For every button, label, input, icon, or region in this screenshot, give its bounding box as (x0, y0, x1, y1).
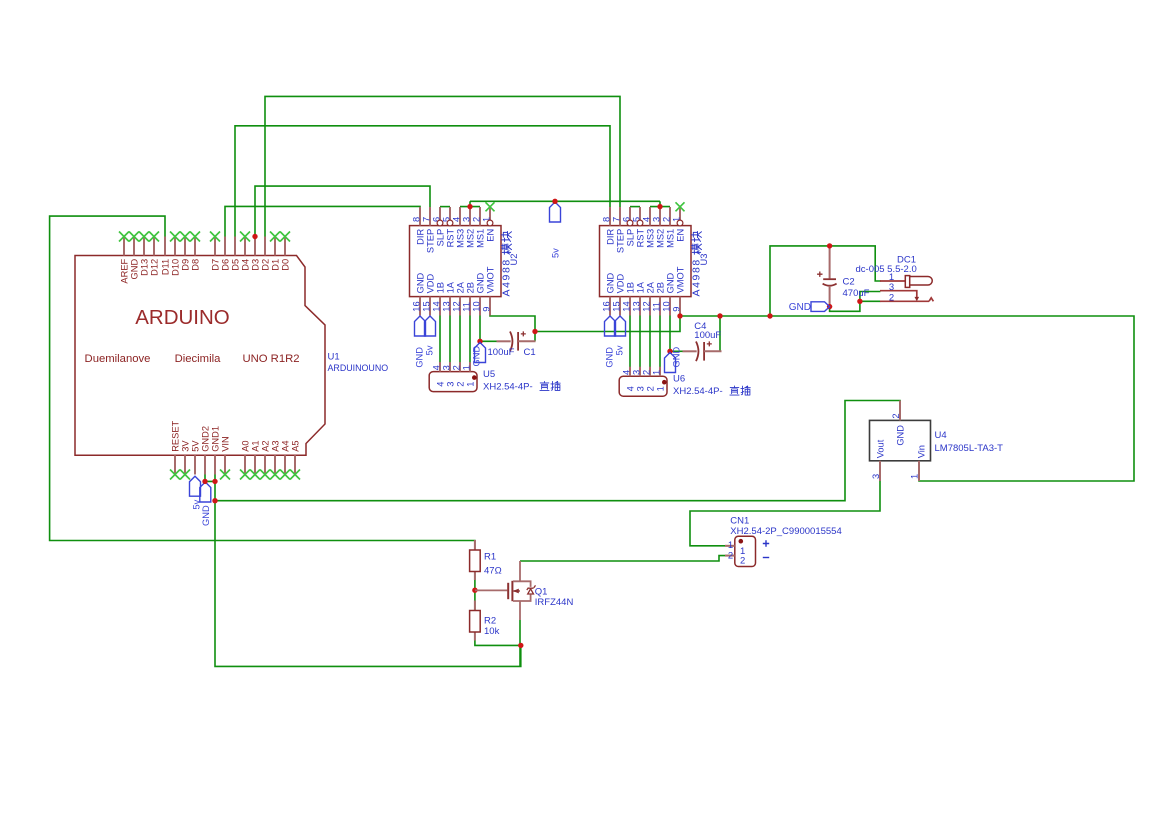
pin 3 of U5 (441, 362, 455, 387)
no-connect X 3V (180, 470, 190, 480)
pin D13 of U1 (139, 237, 149, 276)
svg-text:3: 3 (889, 282, 894, 293)
junction C4 gnd (667, 349, 672, 354)
svg-text:EN: EN (485, 229, 495, 242)
svg-text:3V: 3V (180, 440, 190, 452)
pin 2 MS1 of U3 (661, 207, 675, 248)
pin GND of U1 (129, 237, 139, 280)
no-connect X EN U3 (676, 202, 685, 211)
svg-text:GND: GND (475, 272, 485, 293)
wire GND2 link (205, 475, 215, 482)
pin 13 1A of U2 (441, 281, 455, 315)
text A4988 module name U2 (500, 232, 512, 297)
svg-text:470uF: 470uF (843, 288, 870, 299)
pin 3 of U6 (631, 367, 645, 392)
wire U2 SLP-RST tie (440, 206, 450, 208)
svg-text:15: 15 (421, 301, 431, 311)
pin GND1 of U1 (210, 426, 220, 475)
value R1 (484, 551, 502, 576)
wire Q1 drain to CN1 pin2 (520, 556, 735, 561)
svg-text:D11: D11 (160, 259, 170, 275)
svg-text:100uF: 100uF (694, 330, 721, 341)
svg-text:2: 2 (456, 382, 466, 387)
wire U3 2A to U6 (649, 315, 651, 367)
svg-text:3: 3 (651, 217, 661, 222)
svg-text:C1: C1 (524, 347, 536, 358)
pin 1 EN of U3 (671, 207, 685, 242)
svg-text:GND: GND (665, 272, 675, 293)
junction source R2 (518, 643, 523, 648)
wire VMOT link U2-U3 (535, 315, 680, 332)
wire U4 Vout to CN1 pin1 (690, 461, 880, 546)
svg-text:R1: R1 (484, 551, 496, 562)
pin 9 VMOT of U3 (671, 266, 685, 315)
svg-text:2: 2 (471, 217, 481, 222)
svg-text:ARDUINOUNO: ARDUINOUNO (328, 363, 389, 373)
wire U3 1B to U6 (629, 315, 631, 367)
pin GND2 of U1 (200, 426, 210, 475)
svg-text:2B: 2B (655, 282, 665, 293)
pin 4 MS3 of U3 (641, 207, 655, 248)
capacitor C4 100uF (683, 341, 722, 361)
svg-text:2: 2 (889, 293, 894, 304)
wire U3 1A to U6 (639, 315, 641, 367)
arduino U1 (75, 256, 325, 456)
svg-text:1: 1 (651, 370, 661, 375)
no-connect X VIN (220, 470, 230, 480)
svg-text:2: 2 (728, 550, 733, 561)
junction 12V tee (767, 313, 772, 318)
pin 12 2A of U3 (641, 281, 655, 315)
svg-text:2: 2 (740, 556, 745, 567)
pin D10 of U1 (170, 237, 180, 276)
svg-text:AREF: AREF (119, 258, 129, 283)
pin A3 of U1 (270, 440, 280, 474)
pin 5V of U1 (190, 440, 200, 475)
no-connect X D13 (139, 232, 149, 242)
wire U3 GND pin10 down (669, 315, 671, 351)
junction D3 pin (252, 234, 257, 239)
svg-text:11: 11 (651, 302, 661, 312)
junction 5v flag (552, 199, 557, 204)
no-connect X EN U2 (486, 202, 495, 211)
wire U2 2B to U5 (469, 315, 471, 363)
pin 15 VDD of U3 (611, 273, 625, 315)
pin-1 marker U5 (472, 375, 477, 380)
svg-text:5V: 5V (190, 440, 200, 452)
svg-text:VDD: VDD (425, 273, 435, 293)
svg-text:D7: D7 (210, 259, 220, 271)
pin 2 GND of U4 (891, 401, 906, 446)
svg-text:C2: C2 (843, 277, 855, 288)
pin 1 of U5 (461, 362, 475, 387)
svg-text:MS3: MS3 (455, 229, 465, 248)
svg-text:U3: U3 (699, 254, 709, 266)
svg-text:RST: RST (445, 228, 455, 247)
svg-text:GND: GND (604, 347, 614, 368)
svg-text:3: 3 (631, 370, 641, 375)
svg-text:D13: D13 (139, 259, 149, 276)
pin 8 DIR of U2 (411, 207, 425, 245)
pin 3 MS2 of U3 (651, 207, 665, 248)
svg-text:MS3: MS3 (645, 229, 655, 248)
svg-text:A5: A5 (290, 440, 300, 451)
capacitor C1 100uF (497, 331, 536, 351)
pin 8 DIR of U3 (601, 207, 615, 245)
power flag 5v at U1 (190, 476, 201, 496)
svg-text:STEP: STEP (425, 229, 435, 253)
svg-text:8: 8 (411, 217, 421, 222)
pin A1 of U1 (250, 440, 260, 474)
pin D0 of U1 (280, 237, 290, 271)
wire C1 positive to U2 VMOT (490, 315, 535, 341)
svg-text:3: 3 (441, 365, 451, 370)
svg-text:7: 7 (611, 217, 621, 222)
svg-text:RST: RST (635, 228, 645, 247)
pin D5 of U1 (230, 237, 240, 271)
svg-text:13: 13 (631, 301, 641, 311)
svg-text:SLP: SLP (625, 229, 635, 247)
wire C4 positive up (719, 316, 721, 351)
ground flag GND at C1 (475, 343, 486, 363)
junction C2 top (827, 243, 832, 248)
svg-text:2A: 2A (455, 281, 465, 293)
svg-text:U6: U6 (673, 374, 685, 385)
svg-text:Vout: Vout (876, 439, 886, 458)
wire 12V to C2 and DC1 pin1 (770, 246, 881, 316)
pin 10 GND of U3 (661, 272, 675, 315)
pin 1 of CN1 (725, 540, 745, 557)
svg-text:U2: U2 (509, 254, 519, 266)
svg-text:GND2: GND2 (200, 426, 210, 452)
pin D12 of U1 (149, 237, 159, 276)
junction U3 VMOT (677, 313, 682, 318)
svg-text:2A: 2A (645, 281, 655, 293)
svg-text:A4: A4 (280, 440, 290, 451)
no-connect X GND (129, 232, 139, 242)
svg-text:13: 13 (441, 301, 451, 311)
pin 14 1B of U3 (621, 282, 635, 315)
pin 3 Vout of U4 (871, 439, 886, 481)
svg-text:1: 1 (461, 365, 471, 370)
power flag 5v under U3 (615, 316, 626, 336)
wire U2 MS1-MS3 tie (460, 206, 480, 208)
resistor R1 47&#937; (470, 540, 481, 580)
svg-text:D5: D5 (230, 259, 240, 271)
svg-text:D4: D4 (240, 259, 250, 271)
capacitor C2 470uF (817, 246, 837, 307)
svg-text:A3: A3 (270, 440, 280, 451)
connector CN1 XH2.54-2P (735, 536, 756, 566)
regulator U4 LM7805 (870, 420, 931, 460)
svg-text:GND: GND (896, 425, 906, 446)
svg-text:2: 2 (891, 413, 901, 418)
pin numbers DC1 (889, 272, 894, 304)
svg-text:3: 3 (461, 217, 471, 222)
svg-text:Duemilanove: Duemilanove (85, 353, 151, 365)
svg-text:16: 16 (411, 301, 421, 311)
svg-text:1A: 1A (445, 281, 455, 293)
no-connect X A2 (260, 470, 270, 480)
no-connect X RESET (170, 470, 180, 480)
pin D1 of U1 (270, 237, 280, 271)
pin 1 Vin of U4 (909, 445, 926, 481)
svg-text:XH2.54-4P-: XH2.54-4P- (483, 382, 533, 393)
svg-text:GND: GND (201, 505, 211, 526)
label U6 XH2.54-4P (673, 374, 750, 398)
svg-text:14: 14 (431, 301, 441, 311)
svg-text:Q1: Q1 (535, 587, 548, 598)
no-connect X D12 (149, 232, 159, 242)
svg-text:3: 3 (871, 474, 881, 479)
wire 5v drop U3 (659, 201, 661, 206)
svg-text:10k: 10k (484, 626, 500, 637)
wire net D3 to U2 STEP (255, 186, 430, 237)
svg-text:1: 1 (466, 382, 476, 387)
svg-text:7: 7 (421, 217, 431, 222)
pin A2 of U1 (260, 440, 270, 474)
svg-text:4: 4 (451, 217, 461, 222)
pin 7 STEP of U2 (421, 207, 435, 253)
pin 4 of U5 (431, 362, 445, 387)
text A4988 module name U3 (690, 232, 702, 297)
junction GND2 (202, 479, 207, 484)
power flag 5v under U2 (425, 316, 436, 336)
no-connect X D8 (190, 232, 200, 242)
A4988 module U3 (600, 226, 692, 297)
wire net D2 to U3 STEP (265, 96, 620, 237)
pin D6 of U1 (220, 237, 230, 271)
no-connect X D7 (210, 232, 220, 242)
connector U6 XH2.54-4P (619, 376, 667, 396)
wire R1 to R2 (474, 572, 476, 611)
pin D8 of U1 (190, 237, 200, 271)
pin 3V of U1 (180, 440, 190, 475)
no-connect X D0 (280, 232, 290, 242)
svg-text:9: 9 (671, 307, 681, 312)
svg-text:GND1: GND1 (210, 426, 220, 452)
wire U2 2A to U5 (459, 315, 461, 363)
label DC1 (856, 255, 917, 276)
ground flag GND under U3 (605, 316, 616, 336)
wire C4 negative lead (670, 350, 683, 352)
svg-text:DIR: DIR (605, 229, 615, 245)
resistor R2 10k (470, 601, 481, 641)
svg-text:D3: D3 (250, 259, 260, 271)
pin 6 SLP of U2 (431, 207, 445, 246)
junction C2 bottom (827, 304, 832, 309)
pin 2 of U6 (641, 367, 655, 392)
wire U2 GND pin10 down (479, 315, 481, 341)
svg-text:U5: U5 (483, 369, 495, 380)
pin 4 of U6 (621, 367, 635, 392)
svg-text:U1: U1 (328, 352, 340, 363)
svg-text:MS2: MS2 (465, 229, 475, 248)
value R2 (484, 616, 500, 637)
svg-text:8: 8 (601, 217, 611, 222)
junction DC1 gnd tee (857, 299, 862, 304)
junction R1 R2 gate (472, 588, 477, 593)
pin 3 MS2 of U2 (461, 207, 475, 248)
pin D9 of U1 (180, 237, 190, 271)
pin A5 of U1 (290, 440, 300, 474)
label U1 ARDUINOUNO (328, 352, 389, 374)
pin 5 RST of U3 (631, 207, 645, 247)
svg-text:15: 15 (611, 301, 621, 311)
svg-text:4: 4 (436, 382, 446, 387)
svg-text:5v: 5v (424, 345, 434, 355)
no-connect X A4 (280, 470, 290, 480)
svg-text:RESET: RESET (170, 420, 180, 451)
pin 1 of U6 (651, 367, 665, 392)
svg-text:GND: GND (414, 347, 424, 368)
wire net D11 to R1 (50, 216, 475, 551)
svg-text:LM7805L-TA3-T: LM7805L-TA3-T (935, 443, 1004, 454)
pin 2 of U5 (451, 362, 465, 387)
ground net label GND at C2 (789, 302, 830, 313)
svg-text:XH2.54-4P-: XH2.54-4P- (673, 386, 723, 397)
pin A4 of U1 (280, 440, 290, 474)
pin VIN of U1 (220, 436, 230, 474)
svg-text:dc-005 5.5-2.0: dc-005 5.5-2.0 (856, 264, 917, 275)
svg-text:4: 4 (626, 386, 636, 391)
wire DC1 pin2 tie (860, 300, 881, 302)
wire GND1 down and bottom rail (215, 475, 521, 667)
ground flag GND under U2 (415, 316, 426, 336)
svg-text:1B: 1B (625, 282, 635, 293)
svg-text:Vin: Vin (916, 445, 926, 458)
connector U5 XH2.54-4P (429, 372, 477, 392)
no-connect X D9 (180, 232, 190, 242)
svg-text:VMOT: VMOT (485, 266, 495, 293)
transistor Q1 IRFZ44N (475, 561, 536, 620)
svg-text:Diecimila: Diecimila (175, 353, 222, 365)
svg-text:10: 10 (471, 301, 481, 311)
no-connect X A1 (250, 470, 260, 480)
svg-text:D10: D10 (170, 259, 180, 276)
pin 1 EN of U2 (481, 207, 495, 242)
svg-text:D0: D0 (280, 259, 290, 271)
svg-text:GND: GND (472, 346, 482, 367)
power flag 5v mid (550, 202, 561, 222)
svg-text:1: 1 (656, 386, 666, 391)
pin A0 of U1 (240, 440, 250, 474)
pin D4 of U1 (240, 237, 250, 271)
svg-text:U4: U4 (935, 430, 947, 441)
svg-text:2: 2 (646, 386, 656, 391)
junction GND rail (212, 498, 217, 503)
junction GND1 (212, 479, 217, 484)
junction C1 gnd (477, 339, 482, 344)
svg-text:EN: EN (675, 229, 685, 242)
svg-text:D1: D1 (270, 259, 280, 271)
pin 12 2A of U2 (451, 281, 465, 315)
svg-text:VIN: VIN (220, 436, 230, 452)
svg-text:3: 3 (636, 386, 646, 391)
svg-text:STEP: STEP (615, 229, 625, 253)
pin 7 STEP of U3 (611, 207, 625, 253)
no-connect X AREF (119, 232, 129, 242)
svg-text:XH2.54-2P_C9900015554: XH2.54-2P_C9900015554 (730, 526, 841, 537)
wire U3 2B to U6 (659, 315, 661, 367)
svg-text:2: 2 (451, 365, 461, 370)
no-connect X A0 (240, 470, 250, 480)
svg-text:UNO R1R2: UNO R1R2 (242, 353, 299, 365)
pin 16 GND of U3 (601, 272, 615, 315)
svg-text:2B: 2B (465, 282, 475, 293)
pin 14 1B of U2 (431, 282, 445, 315)
polarity marks CN1 (763, 540, 769, 557)
svg-text:12: 12 (641, 301, 651, 311)
label Q1 IRFZ44N (535, 587, 574, 609)
label U5 XH2.54-4P (483, 369, 560, 393)
svg-text:2: 2 (641, 370, 651, 375)
svg-text:3: 3 (446, 382, 456, 387)
svg-text:GND: GND (672, 347, 682, 368)
ground flag GND at U1 (200, 482, 211, 502)
A4988 module U2 (410, 226, 502, 297)
svg-text:5v: 5v (550, 248, 560, 258)
svg-text:D6: D6 (220, 259, 230, 271)
svg-text:16: 16 (601, 301, 611, 311)
svg-text:1: 1 (909, 474, 919, 479)
svg-text:A1: A1 (250, 440, 260, 451)
pin D7 of U1 (210, 237, 220, 271)
svg-text:ARDUINO: ARDUINO (135, 306, 230, 329)
pin 2 of CN1 (725, 550, 745, 566)
svg-text:A0: A0 (240, 440, 250, 451)
svg-text:1B: 1B (435, 282, 445, 293)
svg-text:MS1: MS1 (475, 229, 485, 248)
wire U2 1B to U5 (439, 315, 441, 363)
no-connect X D4 (240, 232, 250, 242)
svg-text:4: 4 (641, 217, 651, 222)
svg-text:IRFZ44N: IRFZ44N (535, 597, 574, 608)
pin 15 VDD of U2 (421, 273, 435, 315)
wire U3 MS1-MS3 tie (650, 206, 670, 208)
pin 11 2B of U3 (651, 282, 665, 315)
svg-text:10: 10 (661, 301, 671, 311)
svg-text:D9: D9 (180, 259, 190, 271)
svg-text:D12: D12 (149, 259, 159, 276)
pin 4 MS3 of U2 (451, 207, 465, 248)
junction U3 MS tie (657, 204, 662, 209)
svg-text:SLP: SLP (435, 229, 445, 247)
svg-text:MS2: MS2 (655, 229, 665, 248)
wire U2 1A to U5 (449, 315, 451, 363)
no-connect X A3 (270, 470, 280, 480)
junction C4 pos (717, 313, 722, 318)
svg-text:A2: A2 (260, 440, 270, 451)
power jack DC1 dc-005 (880, 276, 933, 302)
pin 13 1A of U3 (631, 281, 645, 315)
pin 9 VMOT of U2 (481, 266, 495, 315)
pin 16 GND of U2 (411, 272, 425, 315)
junction U2 MS tie (467, 204, 472, 209)
pin 6 SLP of U3 (621, 207, 635, 246)
svg-text:VDD: VDD (615, 273, 625, 293)
svg-text:12: 12 (451, 301, 461, 311)
svg-text:4: 4 (431, 365, 441, 370)
wire net D6 to U2 DIR (225, 206, 420, 237)
wire net D5 to U3 DIR (235, 126, 610, 237)
pin 2 MS1 of U2 (471, 207, 485, 248)
pin 5 RST of U2 (441, 207, 455, 247)
svg-text:MS1: MS1 (665, 229, 675, 248)
svg-text:11: 11 (461, 302, 471, 312)
ground flag GND at C4 (665, 353, 676, 373)
svg-text:D2: D2 (260, 259, 270, 271)
